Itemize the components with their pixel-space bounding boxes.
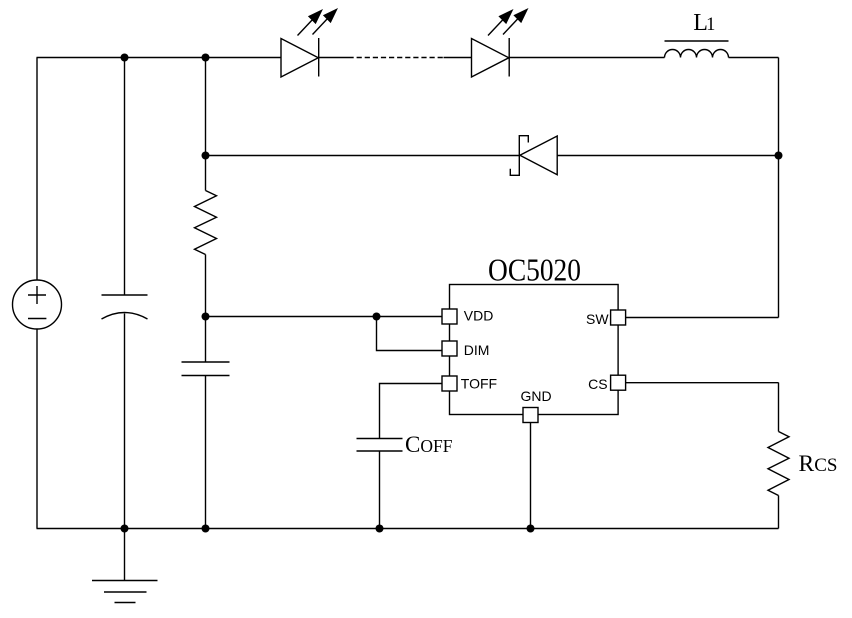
wire C1 top lead	[124, 58, 126, 296]
node dot top R1	[202, 54, 210, 62]
wire dashed to D2	[444, 57, 472, 59]
IC U1 OC5020 box	[450, 285, 619, 415]
node dot bottom C2	[202, 525, 210, 533]
LED D2	[472, 38, 510, 77]
svg-text:CS: CS	[588, 376, 607, 392]
pin DIM	[442, 341, 457, 356]
svg-text:DIM: DIM	[464, 342, 490, 358]
ground	[92, 529, 158, 603]
wire top-left horizontal	[37, 57, 282, 59]
node dot bottom GND	[527, 525, 535, 533]
pin TOFF	[442, 376, 457, 391]
node dot schottky right	[775, 152, 783, 160]
pin CS	[611, 375, 626, 390]
node dot bottom Coff	[376, 525, 384, 533]
wire R1 to VDD node	[205, 255, 207, 317]
wire D2 to L1	[509, 57, 664, 59]
wire dashed LED string	[349, 57, 444, 59]
node dot bottom C1/ground	[121, 525, 129, 533]
wire schottky left	[206, 155, 520, 157]
LED D1 arrows	[298, 10, 337, 36]
node dot VDD left	[202, 313, 210, 321]
inductor L1	[665, 41, 729, 58]
wire C1 bottom lead	[124, 314, 126, 529]
wire schottky right	[557, 155, 778, 157]
wire left vertical upper	[36, 58, 38, 281]
wire Coff bottom lead	[379, 451, 381, 529]
wire left vertical lower	[36, 329, 38, 529]
node dot top C1	[121, 54, 129, 62]
resistor Rcs	[768, 432, 789, 496]
pin VDD	[442, 309, 457, 324]
resistor R1	[195, 191, 217, 255]
svg-text:OC5020: OC5020	[488, 252, 581, 287]
svg-text:RCS: RCS	[799, 451, 838, 477]
diode D3 schottky	[510, 136, 557, 176]
svg-text:GND: GND	[520, 388, 551, 404]
capacitor Coff	[357, 439, 403, 452]
wire GND lead	[530, 423, 532, 529]
pin SW	[611, 310, 626, 325]
voltage source V1	[13, 280, 62, 329]
wire bottom horizontal	[37, 528, 779, 530]
wire C2 top lead	[205, 317, 207, 363]
wire C2 bottom lead	[205, 376, 207, 529]
wire DIM branch	[377, 317, 443, 351]
capacitor C2	[182, 362, 230, 376]
wire D1 to dashed	[319, 57, 349, 59]
LED D2 arrows	[488, 10, 527, 36]
svg-text:COFF: COFF	[405, 432, 453, 457]
wire CS horizontal	[626, 382, 779, 384]
svg-text:SW: SW	[586, 311, 609, 327]
capacitor C1	[102, 295, 148, 319]
wire Rcs bottom lead	[778, 496, 780, 529]
node dot VDD/DIM	[373, 313, 381, 321]
wire right vertical	[778, 58, 780, 318]
svg-text:VDD: VDD	[464, 308, 494, 324]
wire VDD horizontal	[206, 316, 443, 318]
pin GND	[523, 408, 538, 423]
node dot schottky left	[202, 152, 210, 160]
LED D1	[281, 38, 319, 77]
wire CS down to Rcs	[778, 383, 780, 432]
wire TOFF branch	[380, 384, 443, 439]
wire SW horizontal	[626, 317, 779, 319]
svg-text:L1: L1	[693, 10, 715, 36]
wire L1 to right corner	[729, 57, 779, 59]
wire node A vertical upper	[205, 58, 207, 191]
svg-text:TOFF: TOFF	[461, 376, 497, 392]
